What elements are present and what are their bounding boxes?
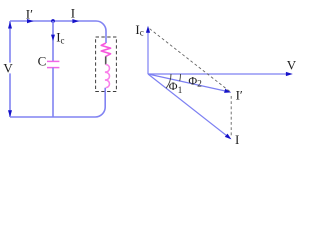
arrow I' on top wire xyxy=(27,19,34,23)
wire: top horizontal with right curve into load box xyxy=(10,21,106,37)
svg-text:V: V xyxy=(3,61,13,76)
phasor V (horizontal right) xyxy=(148,73,287,75)
V arrow up (top) xyxy=(8,22,12,29)
label V (left, with white gap over wire) xyxy=(2,63,14,74)
angle arc phi1 (V to I) xyxy=(166,74,171,88)
wire: left vertical V line with double arrow xyxy=(9,21,11,117)
svg-text:I′: I′ xyxy=(26,6,33,21)
V arrow down (bottom) xyxy=(8,110,12,117)
angle arc phi2 (V to I') xyxy=(179,74,182,81)
svg-text:I′: I′ xyxy=(236,88,243,103)
phasor I' xyxy=(148,74,225,91)
arrow Ic on capacitor branch xyxy=(51,35,55,41)
svg-text:Ic: Ic xyxy=(135,22,143,38)
wire: capacitor branch lower xyxy=(52,68,54,117)
svg-text:I: I xyxy=(235,132,239,147)
svg-text:I: I xyxy=(71,6,75,21)
svg-text:Φ2: Φ2 xyxy=(188,73,202,89)
svg-text:V: V xyxy=(287,57,297,72)
phasor Ic (vertical up) xyxy=(147,32,149,74)
connector between R and L xyxy=(105,56,107,64)
svg-text:C: C xyxy=(38,54,47,69)
inductor L (coil) xyxy=(106,65,110,88)
node junction dot xyxy=(51,19,55,23)
load box (dashed) xyxy=(96,37,117,92)
dashed construction line from I' tip to I tip xyxy=(230,96,232,136)
wire: capacitor branch upper xyxy=(52,21,54,61)
dashed construction line from Ic tip to I' tip xyxy=(150,29,231,92)
resistor R (zigzag) xyxy=(101,43,110,56)
phasor I xyxy=(148,74,226,135)
arrow I on top wire xyxy=(72,19,79,23)
wire: lead out of inductor and down to bottom xyxy=(10,88,105,117)
svg-text:Ic: Ic xyxy=(56,30,64,46)
wire: lead into resistor xyxy=(105,37,107,43)
capacitor C plates xyxy=(47,60,59,62)
